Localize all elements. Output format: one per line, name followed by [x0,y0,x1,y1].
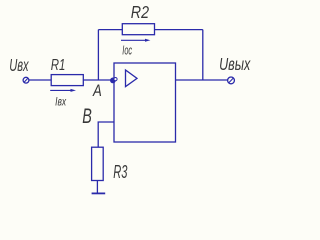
svg-text:B: B [82,105,92,128]
terminal input Uвх [23,77,29,83]
svg-text:R3: R3 [113,162,127,182]
wire R3 to ground [96,181,98,193]
svg-text:R1: R1 [51,57,66,74]
svg-text:Iос: Iос [122,43,132,58]
svg-text:R2: R2 [131,2,149,22]
wire feedback right vertical [202,30,204,80]
wire node B to op-amp noninverting input [98,122,114,147]
wire feedback top [98,29,202,31]
wire feedback left vertical (node A up) [97,30,99,80]
svg-text:Uвх: Uвх [9,55,29,75]
resistor R3 [92,147,104,180]
terminal output Uвых [228,77,235,84]
svg-text:Iвх: Iвх [55,94,67,108]
arrow current Iос [121,39,150,42]
ground [92,192,106,194]
wire op-amp output to terminal [176,79,229,81]
svg-text:A: A [92,82,102,100]
resistor R1 [51,75,83,86]
svg-text:Uвых: Uвых [219,54,251,74]
arrow current Iвх [50,89,76,92]
op-amp U1 body [114,63,176,142]
op-amp U1 triangle symbol [126,70,138,87]
node A junction dot [110,78,117,84]
resistor R2 [122,24,154,35]
wire input terminal to R1 [29,79,52,81]
wire R1 to node A [83,79,112,81]
